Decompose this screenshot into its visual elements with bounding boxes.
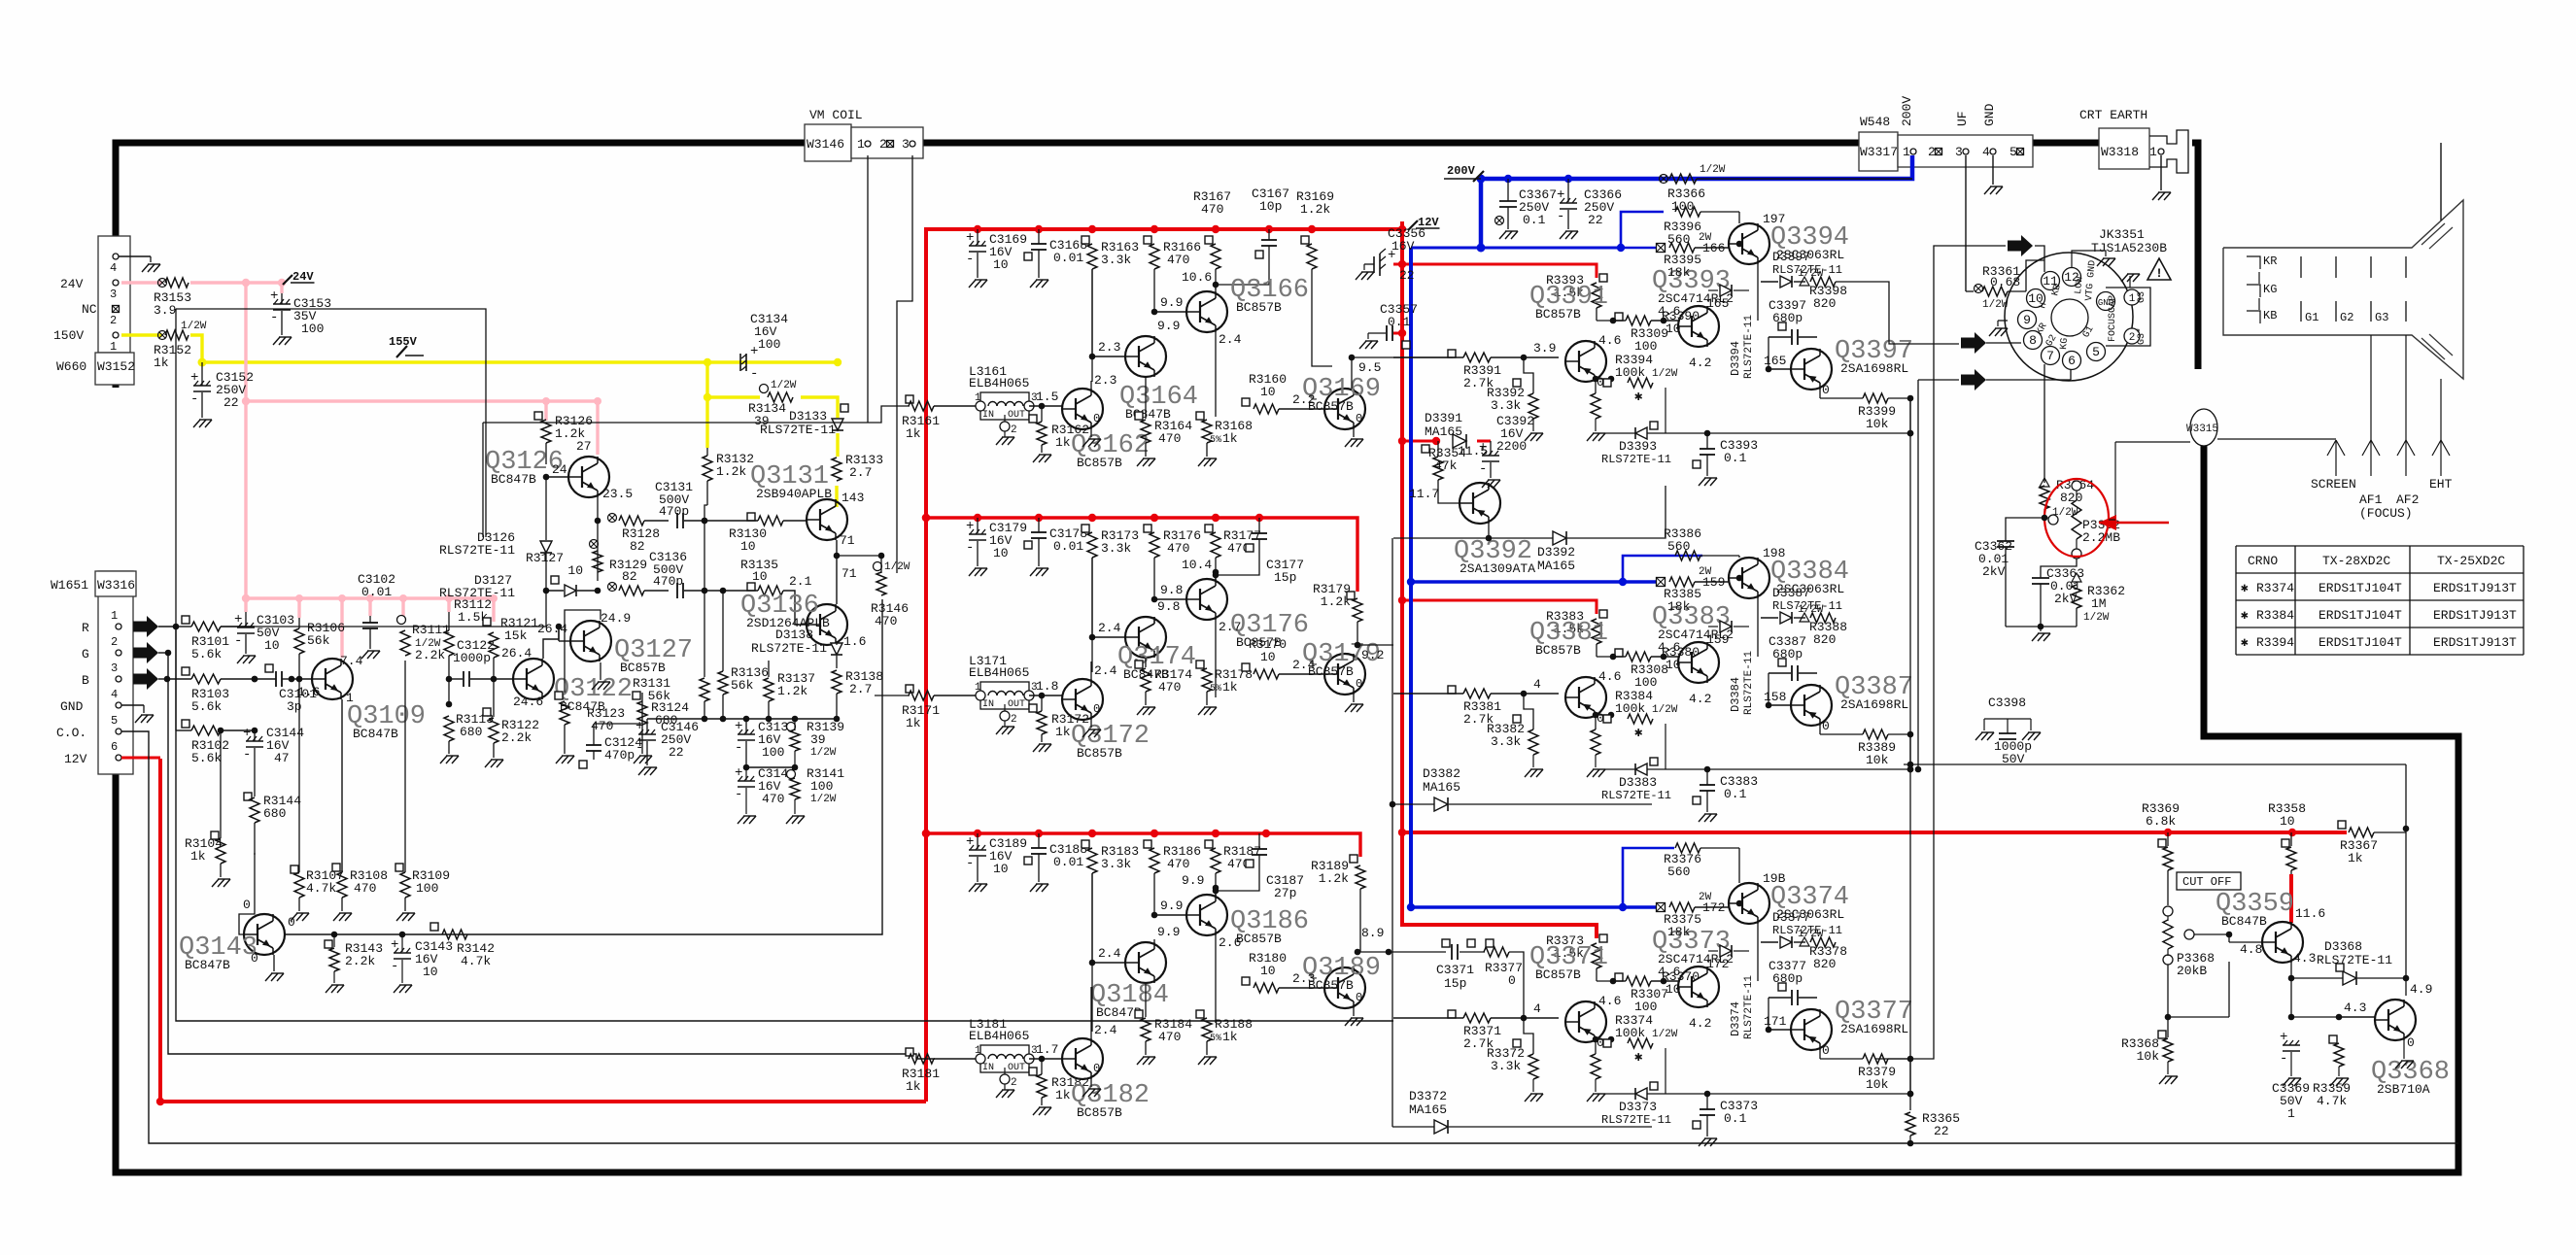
label 4.9: [2410, 982, 2432, 997]
svg-text:1/2W: 1/2W: [771, 380, 797, 391]
CRT neck outline: [2223, 200, 2463, 379]
transistor Q3136: [807, 604, 847, 645]
svg-text:2: 2: [1928, 145, 1936, 159]
label Q3179: [1302, 640, 1381, 679]
svg-text:1: 1: [2129, 293, 2136, 305]
svg-text:SCREEN: SCREEN: [2311, 477, 2356, 492]
svg-text:C3398: C3398: [1988, 695, 2026, 710]
resistor R3362: [2072, 566, 2125, 627]
wire Q3176 emitter to R10: [1216, 620, 1246, 697]
svg-text:1: 1: [111, 609, 118, 623]
bold arrow KG: [1961, 368, 2071, 390]
transistor Q3174: [1125, 617, 1166, 658]
capacitor C3393: [1693, 433, 1758, 486]
svg-text:1/2W: 1/2W: [1700, 164, 1726, 176]
svg-text:W548: W548: [1860, 115, 1890, 129]
svg-text:5: 5: [2092, 345, 2100, 359]
wire Q3186 emitter: [1216, 935, 1241, 1023]
svg-text:BC847B: BC847B: [2221, 914, 2267, 929]
svg-text:R3374: R3374: [2256, 581, 2294, 595]
label Q3373: [1652, 928, 1734, 967]
svg-text:1k: 1k: [906, 716, 921, 730]
svg-text:71: 71: [841, 566, 857, 581]
svg-text:BC847B: BC847B: [491, 472, 536, 487]
wire Q2 coll up: [1154, 319, 1180, 336]
resistor R3134: [748, 380, 797, 428]
wire B input: [158, 676, 170, 683]
wire mid rail2: [743, 764, 799, 771]
svg-text:1/2W: 1/2W: [2083, 612, 2110, 624]
svg-text:150V: 150V: [53, 328, 84, 343]
svg-text:10: 10: [264, 638, 280, 653]
svg-text:2SA1698RL: 2SA1698RL: [1840, 697, 1908, 712]
label Q3127: [614, 636, 693, 675]
svg-text:3: 3: [110, 288, 117, 301]
svg-text:✱: ✱: [1634, 726, 1643, 741]
svg-text:470p: 470p: [653, 574, 683, 589]
svg-text:10p: 10p: [1259, 199, 1282, 214]
12V red rail row2: [926, 518, 1357, 592]
svg-text:G3: G3: [2375, 311, 2388, 324]
svg-text:172: 172: [1702, 900, 1725, 915]
label 165 Q3374: [1702, 900, 1725, 915]
svg-text:G1: G1: [2305, 311, 2318, 324]
label Q3384: [1770, 558, 1849, 596]
svg-text:2: 2: [1011, 424, 1017, 436]
svg-text:(FOCUS): (FOCUS): [2359, 506, 2413, 521]
label 71 a: [840, 533, 855, 548]
resistor R3386: [1664, 526, 1739, 560]
capacitor C3169: [966, 229, 1027, 288]
label AF1: [2359, 492, 2383, 507]
CRT grid line 3: [2370, 256, 2372, 322]
svg-text:RLS72TE-11: RLS72TE-11: [439, 543, 515, 558]
transistor Q3381: [1565, 677, 1606, 718]
svg-text:BC857B: BC857B: [1535, 967, 1581, 982]
resistor R3189v: [1355, 865, 1446, 955]
wire VM pin1: [867, 155, 869, 423]
svg-text:18k: 18k: [1667, 599, 1691, 614]
svg-text:165: 165: [1764, 354, 1786, 368]
wire B vert: [166, 678, 168, 680]
label Q3371: [1529, 943, 1608, 982]
wire R47a to Q3 base: [1151, 269, 1186, 315]
resistor R3398: [1798, 268, 1847, 311]
svg-text:4.6: 4.6: [1598, 994, 1621, 1008]
wire Q3127 collector: [565, 610, 601, 693]
wire Q3179 collector node: [1354, 645, 1356, 654]
label 4.6 Q3381: [1598, 669, 1621, 684]
wire to AF2: [2405, 335, 2407, 440]
svg-text:6.8k: 6.8k: [2146, 814, 2176, 829]
svg-text:KG: KG: [2059, 337, 2071, 350]
wire C3124 R3124 node: [594, 693, 642, 724]
resistor R3381: [1393, 677, 1559, 727]
svg-text:680p: 680p: [1772, 647, 1803, 661]
wire mid to row2: [875, 695, 910, 696]
svg-text:1/2W: 1/2W: [1798, 268, 1824, 280]
resistor R3137: [764, 661, 815, 719]
connector W3318 CRT EARTH: [2079, 108, 2188, 173]
svg-text:2SC3063RL: 2SC3063RL: [1776, 907, 1844, 922]
node B junction: [252, 676, 258, 683]
svg-text:W660: W660: [56, 359, 86, 374]
table row R3384: [2241, 608, 2517, 623]
arrow EHT: [2432, 440, 2450, 476]
transistor Q3397: [1791, 349, 1832, 390]
24V pink wire: [121, 279, 601, 658]
wire arrow stub: [2035, 246, 2044, 272]
svg-text:1/2W: 1/2W: [1798, 929, 1824, 940]
svg-text:+: +: [735, 765, 742, 781]
wire x1433 vertical: [1391, 538, 1393, 1127]
svg-text:3.3k: 3.3k: [1491, 1059, 1521, 1073]
ground P3362 block: [2006, 624, 2077, 641]
label FOCUSGAP: [2108, 295, 2118, 342]
svg-text:W3315: W3315: [2186, 424, 2218, 435]
resistor R3307: [1597, 965, 1680, 1014]
wire C3363: [2041, 559, 2077, 627]
svg-text:100: 100: [758, 337, 780, 352]
svg-text:2.4: 2.4: [1094, 1023, 1117, 1037]
resistor R3123: [555, 692, 625, 763]
diode D3133: [760, 404, 848, 437]
svg-text:4.2: 4.2: [1689, 356, 1711, 370]
svg-text:4.6: 4.6: [1598, 669, 1621, 684]
capacitor C3397: [1769, 298, 1817, 345]
svg-text:GND: GND: [1982, 103, 1997, 126]
svg-text:5: 5: [2009, 145, 2017, 159]
label G3: [2375, 311, 2388, 324]
resistor R3367: [2338, 821, 2406, 865]
CRT earth wire: [2440, 143, 2442, 220]
resistor R3131: [633, 676, 709, 719]
svg-text:-: -: [1479, 461, 1487, 477]
svg-text:15k: 15k: [504, 628, 528, 643]
svg-text:RLS72TE-11: RLS72TE-11: [1601, 453, 1671, 466]
svg-text:2SC3063RL: 2SC3063RL: [1776, 582, 1844, 596]
diode D3127: [439, 573, 601, 600]
wire Q3176 coll node: [1182, 558, 1219, 579]
svg-text:BC857B: BC857B: [1077, 746, 1122, 761]
svg-text:JK3351: JK3351: [2099, 227, 2145, 242]
svg-text:D3384: D3384: [1729, 677, 1742, 712]
resistor R3399: [1820, 390, 1913, 431]
svg-text:AF1: AF1: [2359, 492, 2383, 507]
resistor R3101: [176, 616, 255, 661]
svg-text:0: 0: [1508, 973, 1516, 988]
label G1 pin: [2081, 324, 2097, 340]
wire Q3 collector: [1215, 873, 1217, 884]
capacitor C3363: [2032, 518, 2084, 606]
wire Q3 collector: [1215, 558, 1217, 568]
wire mid bottom rail: [647, 716, 840, 723]
wire Q3179 emitter gnd: [1345, 677, 1363, 712]
resistor R3162: [1029, 406, 1089, 462]
label 0 Q3397: [1822, 383, 1830, 397]
arrow AF2: [2397, 440, 2415, 476]
svg-text:✱: ✱: [1634, 1050, 1643, 1066]
svg-text:9: 9: [2023, 313, 2031, 327]
heater KB symbol: [2247, 298, 2277, 323]
wire R3379 node line: [1605, 1043, 1913, 1097]
label Q3126: [485, 448, 564, 487]
wire wiper to base: [2229, 934, 2262, 942]
svg-text:4.7k: 4.7k: [461, 954, 491, 968]
svg-text:IN: IN: [982, 699, 994, 710]
svg-text:100: 100: [416, 881, 438, 896]
resistor R3153: [154, 278, 191, 318]
red rail right long: [1402, 831, 2347, 834]
svg-text:4: 4: [1533, 1001, 1541, 1016]
label 23.5: [602, 487, 633, 501]
svg-text:D3394: D3394: [1729, 341, 1742, 376]
socket pin12 ground: [2072, 251, 2115, 268]
svg-text:26.4: 26.4: [501, 646, 532, 661]
wire Q3166 emitter to R10: [1216, 332, 1246, 417]
resistor R3122: [483, 670, 539, 767]
wire Q3371 collector: [1593, 1036, 1615, 1043]
wire R3132 down: [702, 505, 708, 677]
svg-text:10.4: 10.4: [1182, 558, 1212, 572]
svg-text:BC857B: BC857B: [620, 661, 666, 675]
wire KR route: [1836, 282, 1959, 344]
wire R3366 to rail: [1697, 178, 1912, 180]
label 197: [1763, 212, 1785, 226]
svg-text:RLS72TE-11: RLS72TE-11: [760, 423, 836, 437]
bold arrow KR: [1961, 332, 2021, 354]
resistor R3364: [2040, 478, 2094, 519]
svg-text:RLS72TE-11: RLS72TE-11: [1743, 315, 1755, 379]
label R3189: [1311, 855, 1357, 886]
label 0 Q3143b: [288, 915, 295, 930]
svg-text:ERDS1TJ913T: ERDS1TJ913T: [2433, 635, 2517, 650]
svg-text:4: 4: [1533, 677, 1541, 692]
potentiometer P3362: [2048, 481, 2120, 559]
resistor R3182: [1029, 1059, 1089, 1115]
svg-text:2: 2: [111, 635, 118, 649]
wire R chain: [176, 627, 1393, 1021]
label 198: [1763, 546, 1785, 560]
capacitor C3371: [1436, 939, 1485, 991]
red drop to Q3359: [2289, 874, 2293, 923]
resistor R3136: [718, 591, 769, 719]
diode D3392: [1489, 486, 1666, 573]
red arrow P3362: [2099, 515, 2169, 530]
svg-text:+: +: [270, 288, 278, 304]
svg-text:24.9: 24.9: [601, 611, 631, 626]
CUT OFF box: [2177, 872, 2241, 890]
arrow input R: [133, 616, 158, 637]
transistor Q3383: [1678, 642, 1719, 683]
pin 4 ground wire: [119, 256, 160, 272]
resistor R3126: [534, 412, 593, 464]
svg-text:10k: 10k: [1866, 417, 1889, 431]
svg-text:3.3k: 3.3k: [1101, 541, 1131, 556]
wire socket pin5: [2071, 360, 2096, 374]
label Q3392: [1454, 537, 1535, 576]
svg-text:B: B: [82, 673, 89, 688]
svg-text:4.6: 4.6: [1658, 965, 1680, 979]
svg-text:-: -: [2280, 1051, 2287, 1067]
svg-text:0: 0: [243, 898, 251, 912]
label R3187 text: [1223, 844, 1261, 871]
svg-text:1.2k: 1.2k: [1319, 871, 1349, 886]
svg-text:5.6k: 5.6k: [191, 751, 222, 765]
label 24.6: [513, 695, 543, 709]
resistor R3139: [787, 719, 845, 767]
label GND vertical: [1982, 103, 1997, 126]
svg-text:71: 71: [840, 533, 855, 548]
svg-text:BC857B: BC857B: [1535, 307, 1581, 322]
svg-text:OUT: OUT: [1008, 1063, 1025, 1073]
svg-text:OUT: OUT: [1008, 699, 1025, 710]
wire bus y435: [483, 423, 862, 537]
resistor R3102: [176, 720, 255, 765]
svg-text:22: 22: [669, 745, 684, 760]
label Q3143: [179, 933, 258, 972]
svg-text:1: 1: [857, 137, 865, 152]
resistor R3180: [1242, 951, 1324, 993]
label 24: [552, 462, 567, 477]
svg-text:3.9: 3.9: [154, 303, 176, 318]
socket focus block: [2106, 288, 2150, 346]
svg-text:C.O.: C.O.: [56, 726, 86, 740]
socket pin 11: [2042, 272, 2060, 290]
resistor R3108: [332, 864, 388, 921]
wire bus y787: [1904, 762, 2406, 768]
svg-text:0.1: 0.1: [1724, 787, 1747, 801]
label Q3174: [1117, 643, 1196, 682]
resistor R3179v: [1353, 598, 1393, 662]
wire L3171 out: [1029, 679, 1062, 698]
resistor R3124: [633, 692, 689, 763]
svg-text:10: 10: [752, 569, 768, 584]
resistor R3171: [894, 685, 976, 730]
svg-text:MA165: MA165: [1423, 780, 1460, 795]
resistor R3383: [1546, 609, 1607, 657]
svg-text:0: 0: [1822, 1043, 1830, 1058]
arrow input G: [133, 642, 158, 663]
diode D3391: [1425, 411, 1466, 448]
svg-text:4.9: 4.9: [2410, 982, 2432, 997]
capacitor C3387: [1769, 634, 1817, 681]
label Q3162: [1071, 431, 1150, 470]
svg-text:G3: G3: [2137, 291, 2147, 303]
diode D3372: [1392, 1089, 1652, 1134]
svg-text:1.7: 1.7: [1036, 1042, 1058, 1057]
wire W3315 focus: [2115, 439, 2336, 442]
capacitor C3179: [966, 518, 1027, 576]
label 0 Q3387: [1822, 719, 1830, 733]
svg-text:2: 2: [1011, 714, 1017, 726]
wire Q3392 feedback: [1392, 537, 1393, 539]
CRT grid line 2: [2335, 256, 2337, 322]
resistor R3366: [1660, 164, 1913, 214]
resistor R3181: [894, 1048, 976, 1094]
svg-text:680p: 680p: [1772, 971, 1803, 986]
svg-text:LOW: LOW: [2074, 276, 2086, 294]
svg-text:470: 470: [1201, 202, 1223, 217]
resistor R3141: [786, 766, 844, 824]
svg-text:1M: 1M: [2091, 596, 2107, 611]
svg-text:1: 1: [110, 340, 117, 354]
svg-text:7.4: 7.4: [340, 654, 363, 668]
wire row3 out to top arrow: [1875, 246, 2006, 1059]
label KG pin: [2059, 337, 2071, 350]
resistor R3128: [608, 514, 670, 555]
12V stub from W3316 pin6: [121, 757, 160, 760]
transistor Q3164: [1125, 336, 1166, 377]
wire Q3186 coll node: [1182, 873, 1219, 895]
svg-text:171: 171: [1764, 1014, 1787, 1029]
wire Q3136 emitter: [836, 641, 838, 645]
svg-text:D3138: D3138: [775, 627, 813, 642]
svg-text:100: 100: [762, 745, 784, 760]
svg-text:1.5: 1.5: [1036, 390, 1058, 404]
svg-text:R3111: R3111: [412, 623, 450, 637]
svg-text:1/2W: 1/2W: [1652, 704, 1678, 716]
wire L3181 out: [1029, 1042, 1062, 1062]
svg-text:2.3: 2.3: [1094, 373, 1116, 388]
capacitor C3383: [1693, 769, 1758, 822]
arrow input B: [133, 668, 158, 690]
svg-text:-: -: [750, 366, 758, 382]
svg-text:1/2W: 1/2W: [810, 747, 837, 759]
resistor R3173: [1082, 525, 1139, 558]
resistor R3373: [1546, 933, 1607, 981]
svg-text:2.4: 2.4: [1219, 332, 1242, 347]
red rail junction dots row1: [974, 225, 1406, 233]
200V blue distribution vertical: [1409, 248, 1413, 907]
wire R33 to Q2 base: [1089, 558, 1125, 640]
svg-text:2SB710A: 2SB710A: [2377, 1082, 2430, 1097]
capacitor C3144: [243, 726, 304, 797]
svg-text:2.4: 2.4: [1098, 621, 1121, 635]
wire VM pin3: [897, 155, 912, 573]
socket pin 5: [2087, 343, 2106, 361]
svg-text:680: 680: [460, 725, 482, 739]
capacitor C3153: [270, 288, 331, 345]
wire Q3387 base: [1766, 673, 1791, 708]
label Q3182: [1071, 1081, 1150, 1120]
wire P3368 bottom loop: [2168, 962, 2229, 1017]
svg-text:D3382: D3382: [1423, 766, 1460, 781]
wire Q1 coll up: [1091, 987, 1117, 1038]
svg-text:IN: IN: [982, 1063, 994, 1073]
resistor R3160: [1242, 372, 1324, 414]
svg-text:D3383: D3383: [1619, 775, 1657, 790]
wire Q3182 collector chain: [1091, 873, 1093, 1032]
svg-text:1k: 1k: [2348, 851, 2363, 865]
table row R3394: [2241, 635, 2517, 650]
svg-text:1/2W: 1/2W: [810, 794, 837, 805]
diode D3126: [439, 477, 552, 591]
svg-text:4.7k: 4.7k: [306, 881, 336, 896]
svg-text:172: 172: [1706, 957, 1729, 971]
capacitor C3187: [1213, 833, 1304, 900]
svg-text:R3377: R3377: [1485, 961, 1523, 975]
resistor R3187: [1205, 840, 1220, 873]
capacitor C3373: [1693, 1094, 1758, 1146]
svg-text:0: 0: [251, 951, 258, 966]
svg-text:BC857B: BC857B: [1236, 300, 1282, 315]
svg-text:W3318: W3318: [2101, 145, 2139, 159]
resistor R3109: [395, 661, 450, 921]
label KR pin: [2035, 322, 2050, 337]
wire R47a to Q3 base: [1151, 558, 1186, 602]
wire Q3122-R3123: [543, 699, 565, 709]
